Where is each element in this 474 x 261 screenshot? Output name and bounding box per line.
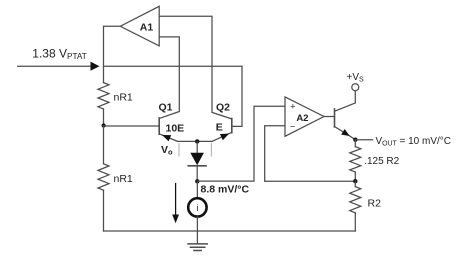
svg-text:10E: 10E [166, 123, 185, 135]
svg-text:Vo: Vo [161, 144, 173, 157]
svg-text:−: − [290, 121, 295, 131]
input arrow 1.38 VPTAT [18, 65, 92, 67]
resistor .125 R2 [354, 140, 356, 147]
node output [353, 138, 357, 142]
node emitter junction [195, 139, 199, 143]
transistor Q1 [158, 118, 160, 134]
op-amp A2 [285, 97, 324, 136]
current direction arrow [175, 184, 177, 216]
svg-text:Q1: Q1 [159, 102, 173, 114]
node diode cathode junction [195, 179, 199, 183]
wire A1 bottom input to Q1 collector [159, 37, 179, 119]
current source I1 [188, 198, 206, 216]
wire A1 output to left rail [104, 26, 121, 82]
node feedback junction [353, 179, 357, 183]
wire diode node to A2 noninverting input [197, 106, 285, 181]
svg-text:A1: A1 [140, 22, 154, 34]
wire Q2 base to VPTAT rail [232, 66, 242, 126]
wire emitter tie bar [178, 140, 212, 142]
resistor nR1 (top) [98, 83, 109, 109]
svg-text:+VS: +VS [347, 72, 365, 84]
wire cathode node to current source [196, 181, 198, 198]
svg-text:1.38 VPTAT: 1.38 VPTAT [32, 47, 86, 62]
wire A2 output to Q3 base [324, 116, 335, 118]
svg-text:A2: A2 [296, 113, 308, 124]
svg-text:VOUT = 10 mV/°C: VOUT = 10 mV/°C [376, 136, 452, 148]
wire bottom rail [104, 230, 356, 232]
wire current source to ground [196, 217, 198, 244]
diode D1 [196, 141, 198, 152]
resistor nR1 (bottom) [103, 126, 105, 164]
wire A1 top input to Q2 collector [159, 16, 232, 119]
transistor Q3 [334, 109, 336, 127]
svg-text:E: E [216, 122, 223, 134]
wire A2 inverting input feedback [265, 126, 356, 181]
supply +VS terminal [352, 84, 359, 91]
wire VPTAT rail (node to Q2 base column) [104, 65, 243, 67]
tick below Q2 emitter [210, 144, 212, 156]
svg-text:nR1: nR1 [114, 92, 133, 104]
tick below Q1 emitter [178, 144, 180, 156]
svg-text:.125 R2: .125 R2 [364, 156, 399, 167]
svg-text:8.8 mV/°C: 8.8 mV/°C [201, 184, 250, 196]
wire output stub [355, 139, 372, 141]
svg-text:+: + [290, 101, 295, 111]
ground [188, 243, 207, 245]
resistor R2 [354, 181, 356, 186]
transistor Q2 [231, 119, 233, 133]
op-amp A1 [120, 6, 159, 46]
svg-text:R2: R2 [368, 198, 382, 210]
node base junction [102, 123, 106, 127]
svg-text:Q2: Q2 [216, 102, 230, 114]
svg-text:nR1: nR1 [114, 173, 133, 185]
wire Q1 base [104, 125, 159, 127]
svg-text:i: i [196, 203, 198, 213]
